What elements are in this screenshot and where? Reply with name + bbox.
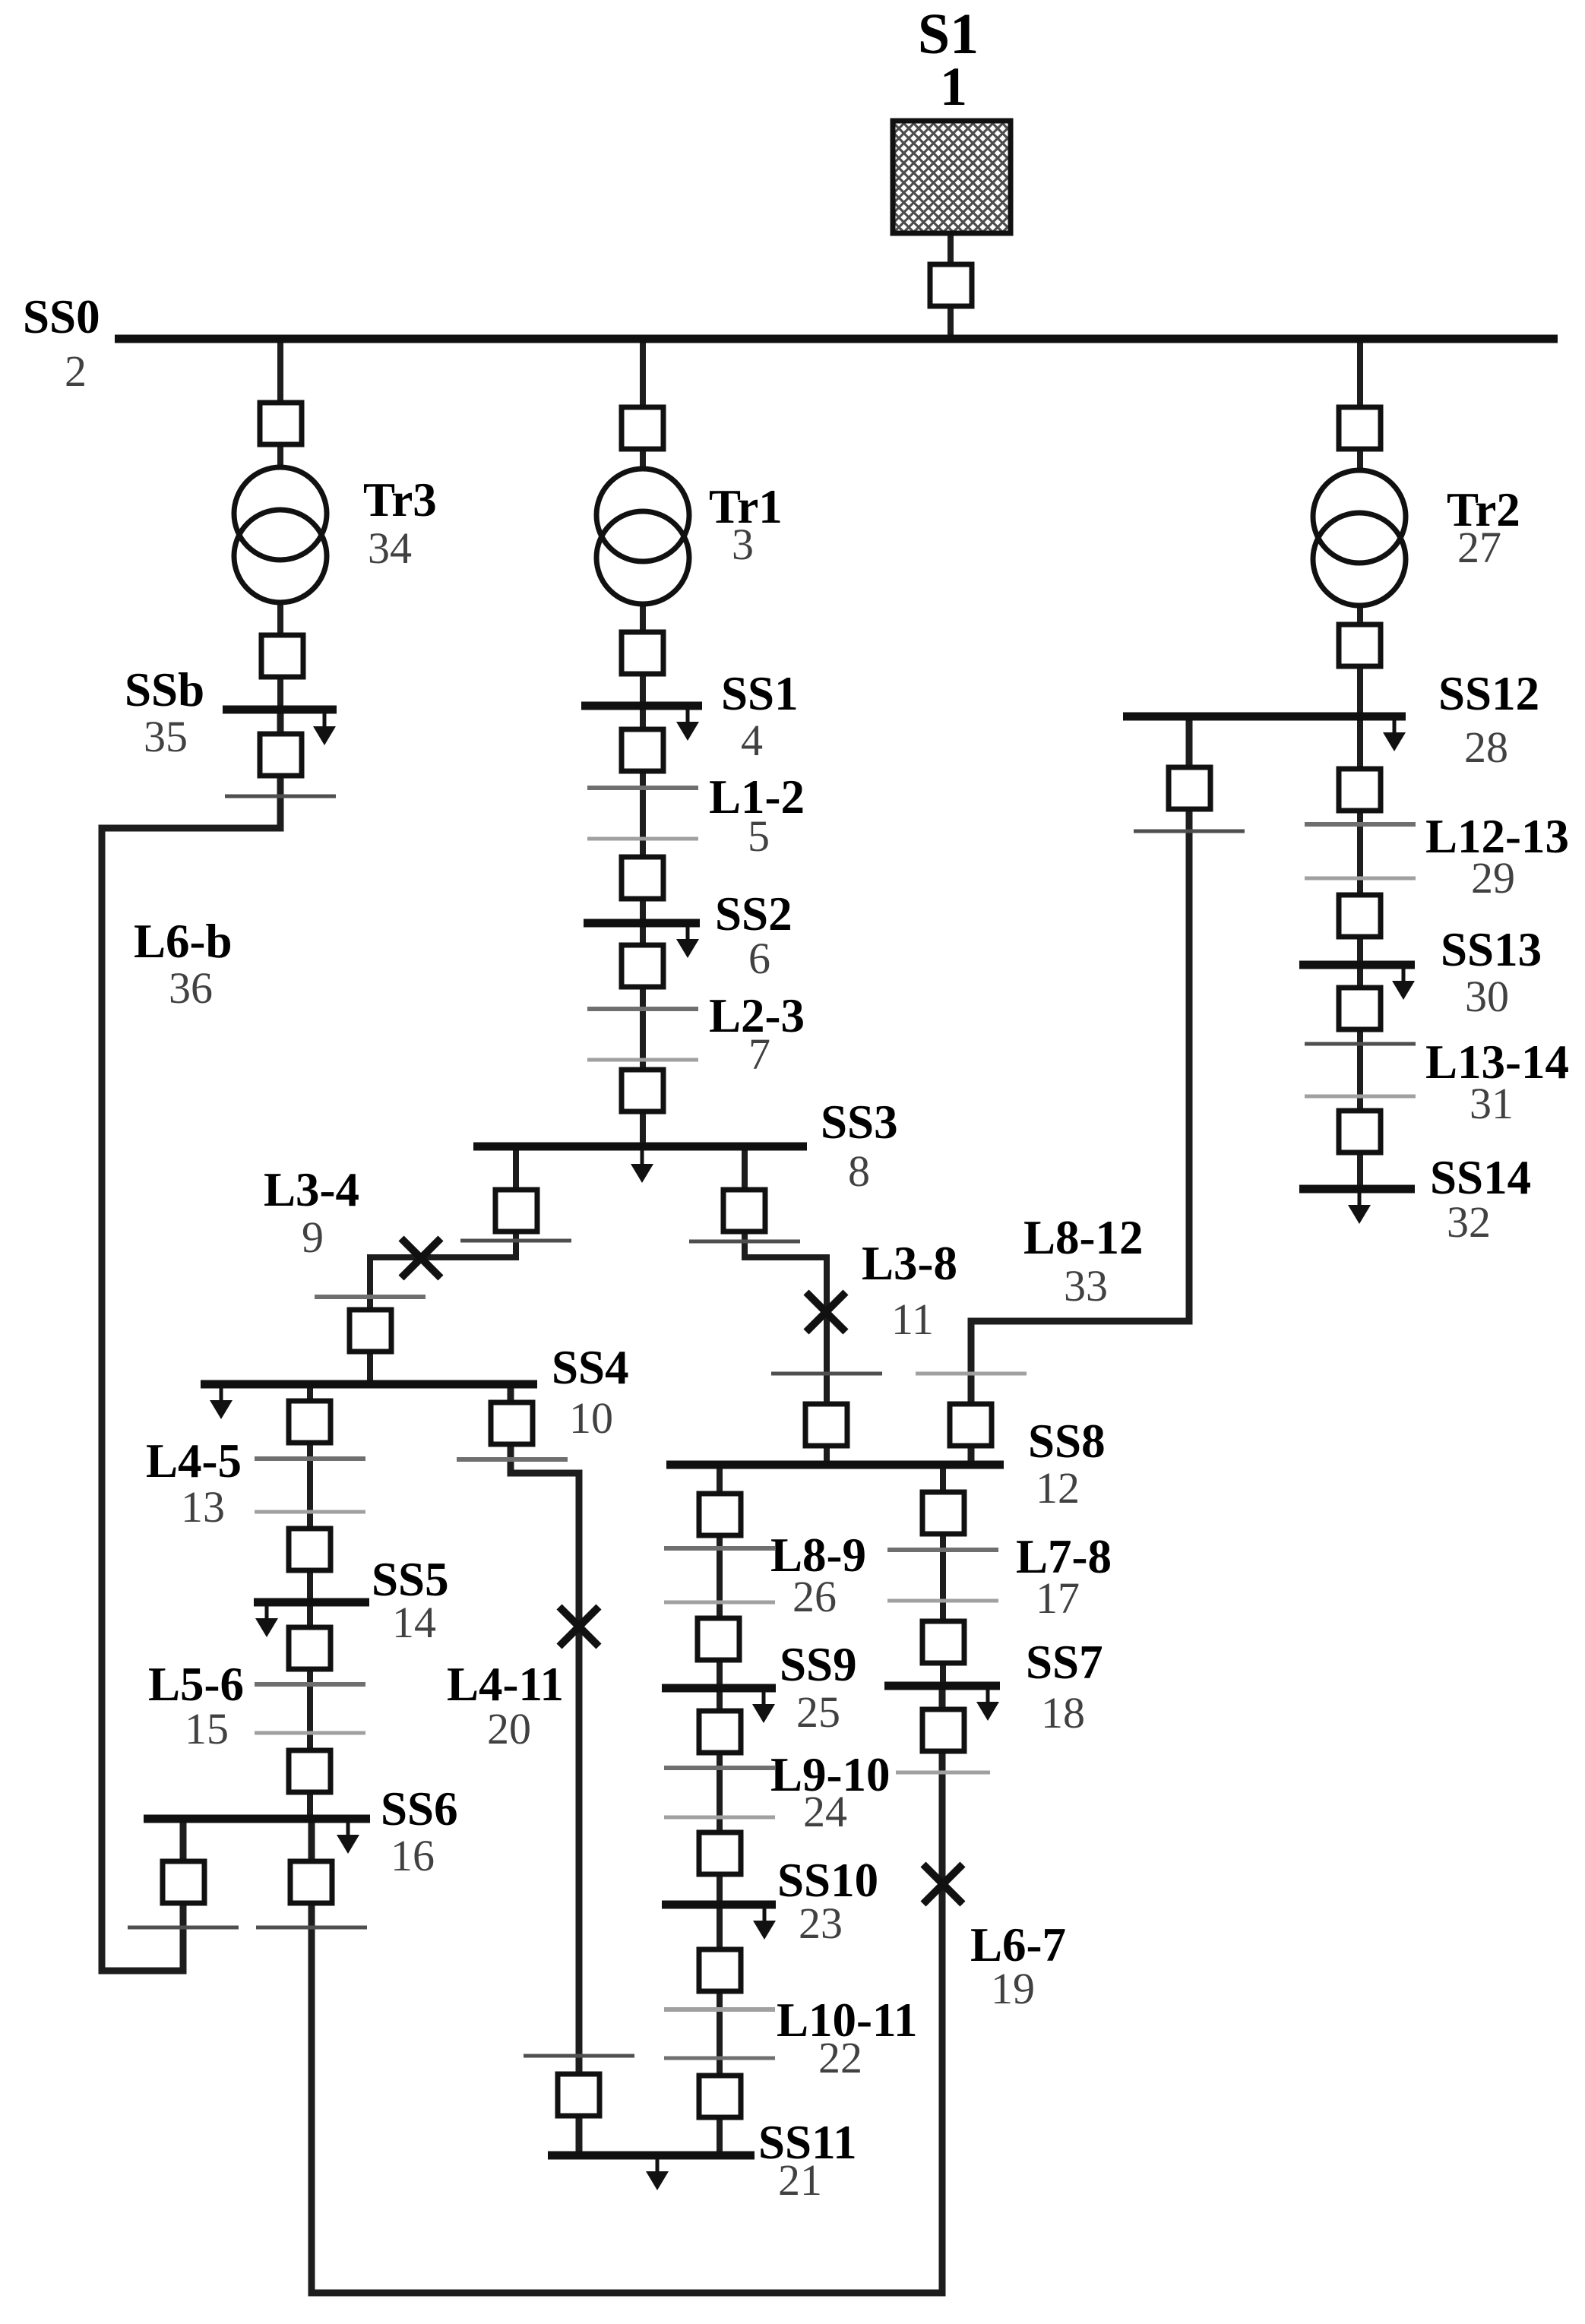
terminal tick on L4-11 before SS11 bbox=[524, 2054, 634, 2058]
svg-text:33: 33 bbox=[1064, 1261, 1108, 1311]
load arrow at SS12 bbox=[1383, 719, 1406, 751]
wire bus SS0 down to transformer Tr2 and bus SS12 bbox=[1357, 339, 1363, 716]
svg-text:L6-b: L6-b bbox=[134, 915, 233, 968]
terminal tick on SS4 right drop (L4-11) bbox=[457, 1457, 568, 1462]
switch square below SS8 left (L8-9) bbox=[699, 1494, 741, 1535]
terminal tick L4-5 lower bbox=[255, 1510, 365, 1514]
terminal tick L2-3 lower bbox=[587, 1058, 698, 1062]
svg-text:31: 31 bbox=[1470, 1079, 1514, 1128]
svg-text:SS8: SS8 bbox=[1028, 1415, 1106, 1468]
svg-text:30: 30 bbox=[1465, 972, 1509, 1021]
load arrow at SS10 bbox=[753, 1907, 776, 1940]
svg-text:SS7: SS7 bbox=[1026, 1636, 1103, 1689]
bus SS3 (node 8) bbox=[473, 1143, 807, 1151]
svg-text:10: 10 bbox=[569, 1393, 613, 1443]
svg-text:13: 13 bbox=[181, 1482, 225, 1532]
terminal tick L9-10 upper bbox=[664, 1766, 775, 1770]
transformer Tr3 (node 34) bbox=[234, 467, 327, 602]
switch square SS0 to Tr1 bbox=[622, 407, 663, 449]
switch square above SS10 (L9-10) bbox=[699, 1832, 741, 1874]
svg-text:8: 8 bbox=[848, 1146, 870, 1196]
switch square above SS7 (L7-8) bbox=[922, 1621, 964, 1663]
switch square below SS5 (L5-6) bbox=[289, 1627, 331, 1669]
svg-text:27: 27 bbox=[1457, 523, 1501, 572]
terminal tick on SS12 left drop (L8-12) bbox=[1134, 830, 1245, 833]
terminal tick L8-9 lower bbox=[664, 1601, 775, 1605]
bus SS12 (node 28) bbox=[1123, 713, 1406, 721]
wire lines L4-5 and L5-6 from bus SS4 through SS5 to SS6 bbox=[307, 1384, 313, 1819]
load arrow at SS7 bbox=[976, 1688, 999, 1721]
switch square Tr1 to SS1 bbox=[622, 632, 663, 674]
switch square below SSb bbox=[260, 734, 302, 776]
bus SS8 (node 12) bbox=[666, 1461, 1004, 1469]
transformer Tr1 (node 3) bbox=[596, 469, 689, 604]
bus SS2 (node 6) bbox=[584, 919, 700, 928]
switch square on L3-4 above SS4 bbox=[350, 1310, 391, 1352]
transformer Tr2 (node 27) bbox=[1313, 470, 1406, 606]
svg-text:14: 14 bbox=[392, 1598, 436, 1647]
wire line L4-11 route from bus SS4 right drop to bus SS11 bbox=[511, 1384, 579, 2155]
svg-text:SS14: SS14 bbox=[1430, 1151, 1531, 1204]
switch square below SS1 (L1-2) bbox=[622, 729, 663, 771]
svg-text:23: 23 bbox=[799, 1899, 843, 1948]
bus SS0 (node 2) bbox=[115, 335, 1558, 343]
svg-text:SS1: SS1 bbox=[721, 667, 799, 720]
svg-text:29: 29 bbox=[1471, 853, 1515, 903]
terminal tick on L3-8 before SS8 bbox=[771, 1372, 882, 1376]
terminal tick L7-8 upper bbox=[887, 1548, 998, 1552]
switch square above SS2 (L1-2) bbox=[622, 857, 663, 899]
switch square above SS5 (L4-5) bbox=[289, 1529, 331, 1570]
bus SS4 (node 10) bbox=[201, 1380, 537, 1389]
terminal tick L1-2 upper bbox=[587, 786, 698, 790]
load arrow at SSb bbox=[313, 713, 336, 745]
svg-text:SS13: SS13 bbox=[1441, 923, 1542, 976]
wire line L1-2 from bus SS1 to bus SS2 bbox=[640, 706, 646, 923]
svg-text:SS2: SS2 bbox=[715, 887, 792, 941]
load arrow at SS9 bbox=[752, 1690, 775, 1723]
terminal tick below SS7 (L6-7) bbox=[896, 1771, 990, 1775]
svg-text:Tr3: Tr3 bbox=[363, 473, 437, 526]
svg-text:L3-4: L3-4 bbox=[264, 1163, 359, 1216]
terminal tick L9-10 lower bbox=[664, 1816, 775, 1820]
switch square SS6 left branch bbox=[163, 1861, 204, 1903]
terminal tick L10-11 upper bbox=[664, 2007, 775, 2012]
wire bus SS0 down to transformer Tr3 bbox=[277, 339, 283, 706]
bus SSb (node 35) bbox=[223, 706, 337, 714]
wire lines L8-9 L9-10 L10-11 from bus SS8 through SS9 SS10 to SS11 bbox=[717, 1465, 723, 2155]
switch square SS4 right drop (L4-11) bbox=[491, 1402, 533, 1444]
bus SS6 (node 16) bbox=[144, 1815, 370, 1823]
svg-text:17: 17 bbox=[1036, 1573, 1080, 1623]
bus SS1 (node 4) bbox=[581, 702, 702, 710]
switch square SS3 left drop (L3-4) bbox=[495, 1190, 537, 1232]
switch square SS12 left drop (L8-12) bbox=[1169, 767, 1210, 809]
svg-text:5: 5 bbox=[748, 811, 770, 861]
switch square below SS10 (L10-11) bbox=[699, 1949, 741, 1991]
terminal tick L4-5 upper bbox=[255, 1456, 365, 1461]
bus SS11 (node 21) bbox=[548, 2152, 755, 2160]
load arrow below SS14 bbox=[1348, 1191, 1371, 1224]
terminal tick L2-3 upper bbox=[587, 1007, 698, 1011]
bus SS13 (node 30) bbox=[1299, 961, 1415, 969]
svg-text:SS9: SS9 bbox=[780, 1638, 857, 1691]
svg-text:19: 19 bbox=[991, 1964, 1035, 2013]
svg-text:1: 1 bbox=[940, 56, 967, 117]
svg-text:25: 25 bbox=[796, 1687, 840, 1737]
svg-text:L4-5: L4-5 bbox=[146, 1434, 242, 1488]
bus SS9 (node 25) bbox=[662, 1684, 776, 1693]
svg-text:L8-12: L8-12 bbox=[1023, 1211, 1144, 1264]
svg-text:SSb: SSb bbox=[125, 663, 204, 716]
svg-text:32: 32 bbox=[1447, 1197, 1491, 1247]
svg-text:2: 2 bbox=[65, 346, 87, 396]
switch square above SS9 (L8-9) bbox=[698, 1618, 739, 1660]
terminal tick L10-11 lower bbox=[664, 2057, 775, 2060]
svg-text:L5-6: L5-6 bbox=[148, 1658, 244, 1711]
terminal tick on SS6 center drop bbox=[256, 1926, 367, 1930]
svg-text:36: 36 bbox=[169, 963, 213, 1013]
svg-text:15: 15 bbox=[185, 1704, 229, 1753]
svg-text:SS0: SS0 bbox=[23, 290, 100, 343]
switch square below SS9 (L9-10) bbox=[699, 1711, 741, 1753]
svg-text:9: 9 bbox=[302, 1213, 324, 1262]
switch square below SS8 center (L7-8) bbox=[922, 1492, 964, 1534]
svg-text:12: 12 bbox=[1036, 1463, 1080, 1513]
svg-text:6: 6 bbox=[748, 934, 770, 983]
bus SS5 (node 14) bbox=[254, 1598, 369, 1607]
load arrow at SS6 bbox=[337, 1821, 359, 1854]
bus SS7 (node 18) bbox=[884, 1682, 1000, 1690]
wire line L7-8 from bus SS8 to bus SS7 bbox=[940, 1465, 946, 1686]
load arrow at SS13 bbox=[1392, 967, 1415, 1000]
svg-text:SS6: SS6 bbox=[381, 1782, 458, 1835]
svg-text:21: 21 bbox=[778, 2155, 822, 2205]
switch square SS0 to Tr2 bbox=[1339, 407, 1381, 449]
svg-text:4: 4 bbox=[741, 716, 763, 765]
svg-text:28: 28 bbox=[1464, 722, 1508, 772]
svg-text:L3-8: L3-8 bbox=[862, 1237, 957, 1290]
svg-text:16: 16 bbox=[391, 1831, 435, 1880]
wire bus SS0 down to transformer Tr1 and bus SS1 bbox=[640, 339, 646, 706]
svg-text:7: 7 bbox=[748, 1029, 770, 1079]
wire line L3-8 route from bus SS3 right drop to bus SS8 bbox=[745, 1146, 827, 1465]
wire SS6 center drop, bottom route of line L6-7 bbox=[312, 1686, 942, 2293]
terminal tick below SSb bbox=[225, 795, 336, 798]
open switch X on line L4-11 bbox=[559, 1607, 599, 1646]
svg-text:11: 11 bbox=[891, 1295, 934, 1344]
wire line L3-4 route from bus SS3 left drop to bus SS4 bbox=[370, 1146, 516, 1384]
switch square above SS3 (L2-3) bbox=[622, 1070, 663, 1111]
svg-text:24: 24 bbox=[803, 1787, 847, 1836]
terminal tick L7-8 lower bbox=[887, 1599, 998, 1603]
terminal tick on SS6 left branch bbox=[128, 1926, 239, 1930]
terminal tick on SS3 right drop (L3-8) bbox=[689, 1240, 800, 1244]
svg-text:26: 26 bbox=[792, 1572, 837, 1621]
terminal tick on L3-4 before SS4 bbox=[315, 1295, 426, 1299]
wire line L2-3 from bus SS2 to bus SS3 bbox=[640, 923, 646, 1146]
wire from source S1 down to bus SS0 bbox=[948, 232, 954, 339]
svg-text:22: 22 bbox=[818, 2033, 862, 2082]
switch square below SS2 (L2-3) bbox=[622, 945, 663, 987]
load arrow below SS3 bbox=[631, 1150, 653, 1183]
terminal tick L12-13 upper bbox=[1305, 822, 1416, 827]
switch square below SS13 (L13-14) bbox=[1339, 988, 1381, 1029]
switch square above SS13 (L12-13) bbox=[1339, 895, 1381, 937]
switch square above SS6 (L5-6) bbox=[289, 1750, 331, 1792]
bus SS14 (node 32) bbox=[1299, 1185, 1415, 1194]
switch square Tr2 to SS12 bbox=[1339, 624, 1381, 666]
terminal tick L5-6 upper bbox=[255, 1682, 365, 1687]
open switch X on line L6-7 bbox=[923, 1864, 963, 1904]
switch square SS3 right drop (L3-8) bbox=[723, 1190, 765, 1232]
terminal tick L1-2 lower bbox=[587, 837, 698, 841]
terminal tick L13-14 lower bbox=[1305, 1095, 1416, 1099]
switch square on L4-11 above SS11 bbox=[558, 2074, 600, 2116]
switch square below source S1 bbox=[930, 264, 972, 306]
svg-text:L4-11: L4-11 bbox=[447, 1658, 564, 1711]
switch square below SS4 (L4-5) bbox=[289, 1401, 331, 1443]
switch square SS0 to Tr3 bbox=[260, 403, 302, 444]
switch square Tr3 to SSb bbox=[261, 635, 303, 677]
bus SS10 (node 23) bbox=[662, 1901, 776, 1909]
svg-text:35: 35 bbox=[144, 712, 188, 761]
switch square above SS11 (L10-11) bbox=[699, 2076, 741, 2117]
svg-text:34: 34 bbox=[368, 523, 412, 573]
switch square below SS12 (L12-13) bbox=[1339, 769, 1381, 811]
open switch X on line L3-8 bbox=[806, 1292, 846, 1332]
switch square on L3-8 above SS8 bbox=[805, 1404, 847, 1446]
terminal tick L5-6 lower bbox=[255, 1731, 365, 1735]
terminal tick L13-14 upper bbox=[1305, 1042, 1416, 1046]
switch square on L8-12 above SS8 bbox=[950, 1404, 992, 1446]
switch square SS6 center drop bbox=[290, 1861, 332, 1903]
svg-text:SS12: SS12 bbox=[1438, 667, 1539, 720]
svg-text:20: 20 bbox=[487, 1704, 531, 1753]
load arrow at SS1 bbox=[676, 708, 699, 741]
svg-text:18: 18 bbox=[1041, 1688, 1085, 1737]
svg-text:SS4: SS4 bbox=[552, 1341, 629, 1394]
load arrow at SS2 bbox=[676, 925, 699, 958]
wire SSb chain and line L6-b route (SSb down, left, down to SS6 left branch) bbox=[102, 706, 280, 1971]
load arrow at SS4 left end bbox=[210, 1386, 233, 1419]
terminal tick on L8-12 before SS8 bbox=[916, 1372, 1027, 1376]
switch square below SS7 (L6-7) bbox=[922, 1709, 964, 1751]
wire line L8-12 route from bus SS12 left drop to bus SS8 bbox=[971, 716, 1189, 1465]
terminal tick on SS3 left drop (L3-4) bbox=[460, 1239, 571, 1243]
open switch X on line L3-4 bbox=[401, 1238, 441, 1278]
terminal tick L12-13 lower bbox=[1305, 877, 1416, 881]
load arrow at SS5 bbox=[255, 1605, 278, 1637]
terminal tick L8-9 upper bbox=[664, 1546, 775, 1551]
svg-text:3: 3 bbox=[732, 520, 754, 569]
load arrow below SS11 bbox=[646, 2158, 669, 2190]
source S1 (node 1) hatched square bbox=[893, 121, 1011, 233]
svg-text:SS3: SS3 bbox=[821, 1096, 898, 1149]
switch square above SS14 (L13-14) bbox=[1339, 1111, 1381, 1153]
wire lines L12-13 and L13-14 from bus SS12 to SS13 to SS14 bbox=[1357, 716, 1363, 1190]
